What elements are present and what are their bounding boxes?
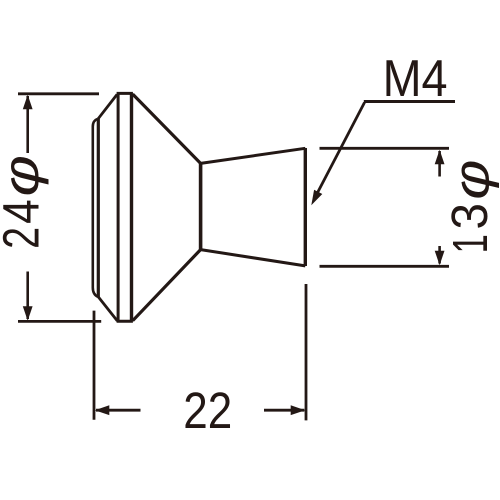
dim 22 line left — [96, 409, 141, 412]
svg-text:4: 4 — [0, 199, 50, 224]
dim 24 line lower — [26, 272, 29, 320]
knob head back vertical — [130, 93, 133, 321]
arrow 13 down — [435, 251, 445, 266]
svg-text:φ: φ — [443, 160, 499, 200]
dim 13 extension top — [320, 147, 450, 150]
arrow 24 up — [23, 95, 33, 110]
dim 24 line upper — [26, 96, 29, 153]
stem bottom edge — [201, 250, 306, 266]
knob head bottom edge — [117, 320, 133, 323]
arrow M4 leader — [311, 190, 322, 205]
knob head front vertical — [117, 93, 120, 321]
dim 22 extension right — [305, 284, 308, 420]
dim 22 extension left — [93, 311, 96, 420]
knob head top edge — [117, 92, 133, 95]
dim 13 line lower — [438, 246, 441, 264]
arrow 24 down — [23, 306, 33, 321]
svg-text:M4: M4 — [383, 50, 448, 108]
svg-text:1: 1 — [443, 234, 497, 253]
arrow 22 left — [95, 405, 110, 415]
svg-text:3: 3 — [443, 203, 499, 229]
knob front lip — [93, 119, 98, 297]
M4 leader diagonal — [315, 103, 365, 198]
dim 22 line right — [264, 409, 304, 412]
cone top edge — [133, 94, 201, 163]
knob top chamfer — [98, 95, 117, 119]
dim 13 line upper — [438, 151, 441, 177]
arrow 22 right — [291, 405, 306, 415]
dim 24 extension bottom — [18, 320, 101, 323]
stem top edge — [201, 148, 306, 163]
dim 13 extension bottom — [320, 265, 450, 268]
knob front face edge line — [97, 119, 100, 298]
M4 leader underline — [364, 100, 455, 103]
arrow 13 up — [435, 150, 445, 165]
cone bottom edge — [133, 250, 201, 321]
dim 24 extension top — [18, 92, 99, 95]
base vertical — [304, 148, 307, 266]
knob bottom chamfer — [98, 297, 117, 321]
svg-text:22: 22 — [183, 383, 232, 440]
neck vertical — [199, 163, 203, 250]
svg-text:2: 2 — [0, 227, 50, 249]
svg-text:φ: φ — [0, 155, 49, 197]
